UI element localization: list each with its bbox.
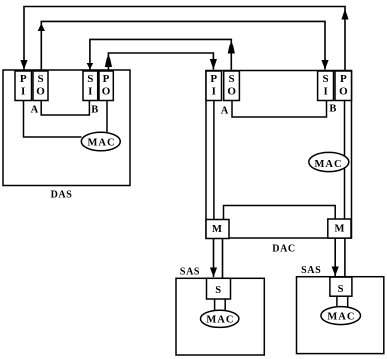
svg-text:P: P — [103, 73, 110, 85]
svg-text:MAC: MAC — [327, 311, 355, 322]
DAS port SO box — [33, 71, 48, 101]
wire DAC M2 to SAS2 S (arrowed) — [334, 238, 336, 276]
SAS2 wire S to MAC right — [347, 296, 349, 306]
SAS2 station box — [297, 277, 384, 354]
svg-text:M: M — [334, 224, 344, 235]
DAC internal wire M1-M2 bridge — [224, 206, 336, 220]
svg-text:S: S — [323, 73, 329, 85]
DAS station box — [3, 70, 130, 186]
DAC MAC ellipse — [309, 152, 349, 171]
svg-text:S: S — [215, 285, 221, 296]
arrowhead out of DAS PO — [105, 54, 112, 67]
svg-text:P: P — [210, 73, 217, 85]
svg-text:SAS: SAS — [180, 266, 200, 277]
DAS port PI box — [15, 71, 32, 101]
wire ring1: DAC PO to DAS PI — [24, 7, 345, 71]
DAC port M2 box — [328, 219, 351, 238]
svg-text:DAS: DAS — [51, 190, 73, 201]
svg-text:O: O — [227, 85, 236, 97]
wire DAC M1 to SAS1 (return) — [222, 239, 224, 279]
svg-text:P: P — [20, 73, 27, 85]
DAC concentrator box — [206, 71, 352, 239]
svg-text:S: S — [87, 73, 93, 85]
svg-text:S: S — [37, 73, 43, 85]
DAC internal wire SO-SI bypass — [232, 101, 327, 118]
SAS1 wire S to MAC right — [224, 299, 226, 310]
DAC port PO box — [335, 71, 352, 101]
svg-text:I: I — [323, 85, 327, 97]
DAS internal wire PO to MAC — [106, 101, 108, 133]
arrowhead into SAS1 S — [210, 268, 217, 278]
SAS1 station box — [176, 278, 264, 355]
svg-text:MAC: MAC — [314, 159, 342, 170]
svg-text:I: I — [88, 85, 92, 97]
arrowhead into DAC PI — [210, 59, 217, 69]
arrowhead into DAS PI — [20, 60, 27, 70]
svg-text:S: S — [338, 284, 344, 295]
SAS2 MAC ellipse — [321, 307, 361, 325]
svg-text:A: A — [221, 106, 229, 117]
arrowhead out of DAS SO — [38, 23, 45, 31]
SAS1 port S box — [207, 278, 231, 299]
wire ring2: DAS SO to DAC SI — [41, 21, 325, 70]
svg-text:B: B — [329, 104, 336, 115]
DAS port PO box — [99, 71, 113, 101]
wire DAC M2 to SAS2 (return) — [344, 238, 346, 277]
DAC port M1 box — [206, 220, 229, 239]
wire ring3: DAC SO to DAS SI — [90, 39, 231, 70]
DAC internal wire PO down to M2 — [344, 101, 346, 220]
SAS1 wire S to MAC left — [214, 299, 216, 310]
SAS2 port S box — [330, 277, 352, 296]
svg-text:M: M — [212, 224, 222, 235]
wire ring4: DAS PO to DAC PI — [108, 53, 213, 71]
svg-text:DAC: DAC — [272, 244, 295, 255]
svg-text:P: P — [340, 73, 347, 85]
arrowhead out of DAC SO — [228, 41, 235, 53]
DAC internal wire PI down to M1 — [213, 101, 215, 220]
DAC port SI box — [318, 71, 334, 101]
svg-text:SAS: SAS — [301, 265, 321, 276]
arrowhead into SAS2 S — [332, 267, 339, 277]
DAC port PI box — [206, 71, 222, 101]
svg-text:A: A — [31, 105, 39, 116]
DAS port SI box — [83, 71, 98, 101]
svg-text:B: B — [91, 104, 98, 115]
svg-text:I: I — [21, 85, 25, 97]
svg-text:O: O — [339, 85, 348, 97]
svg-text:S: S — [229, 73, 235, 85]
DAS MAC ellipse — [81, 132, 120, 151]
wire DAC M1 to SAS1 S (arrowed) — [213, 239, 215, 278]
arrowhead into DAS SI — [87, 63, 94, 69]
svg-text:O: O — [36, 85, 45, 97]
svg-text:MAC: MAC — [206, 315, 234, 326]
arrowhead out of DAC PO — [341, 9, 348, 20]
svg-text:O: O — [102, 85, 111, 97]
SAS2 wire S to MAC left — [336, 296, 338, 306]
svg-text:MAC: MAC — [87, 137, 115, 148]
DAS internal wire SO-SI bypass — [41, 101, 89, 116]
svg-text:I: I — [212, 85, 216, 97]
DAC port SO box — [224, 71, 240, 101]
DAS internal wire PI to MAC — [24, 101, 82, 138]
arrowhead into DAC SI — [321, 60, 328, 70]
SAS1 MAC ellipse — [201, 310, 239, 327]
